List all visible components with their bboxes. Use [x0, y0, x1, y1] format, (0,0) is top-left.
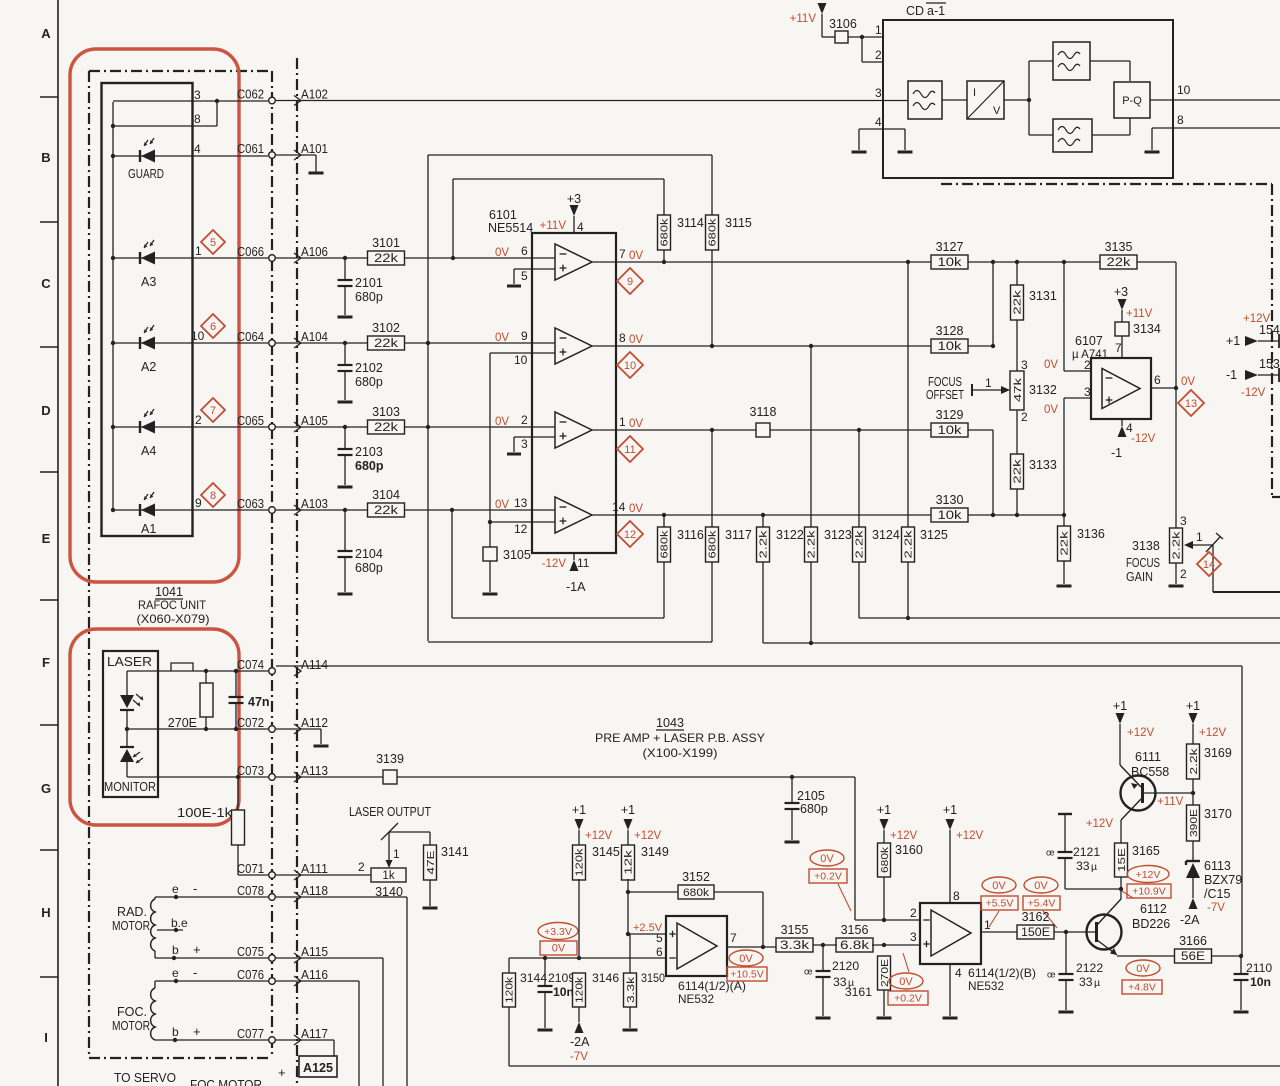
svg-text:+1: +1 — [943, 803, 957, 817]
capacitor 2105 — [785, 775, 828, 840]
svg-text:1: 1 — [195, 244, 202, 258]
svg-text:I: I — [973, 87, 976, 99]
svg-text:OFFSET: OFFSET — [926, 388, 964, 402]
resistor 3156 — [836, 923, 873, 952]
component 3134 — [1115, 322, 1161, 336]
svg-text:3149: 3149 — [641, 845, 669, 859]
wire bottom rail — [509, 1065, 1280, 1067]
svg-text:10k: 10k — [938, 257, 962, 269]
svg-text:D: D — [41, 403, 50, 418]
red leader pin3 — [903, 953, 909, 972]
connector 153 — [1226, 357, 1280, 399]
ground bar 2102 — [338, 401, 353, 404]
connector A117 — [294, 1026, 328, 1045]
potentiometer 3132 FOCUS OFFSET — [1010, 358, 1057, 424]
svg-text:-12V: -12V — [1131, 433, 1156, 445]
svg-text:0V: 0V — [820, 853, 834, 865]
svg-text:4: 4 — [194, 142, 201, 156]
svg-text:A111: A111 — [301, 861, 328, 876]
op-amp 6114B triangle — [923, 910, 971, 956]
svg-text:3166: 3166 — [1179, 934, 1207, 948]
ground bar 2122 — [1059, 1011, 1074, 1014]
svg-text:4: 4 — [577, 220, 584, 234]
wire pin3 to filter — [883, 100, 908, 102]
label 6114(1/2)(B) — [968, 966, 1036, 993]
connector C074 — [237, 657, 275, 674]
svg-text:680k: 680k — [659, 530, 671, 559]
svg-text:C071: C071 — [237, 861, 264, 876]
svg-text:+10.9V: +10.9V — [1132, 886, 1166, 898]
svg-text:3152: 3152 — [682, 870, 710, 884]
wire pin 4 grounds — [859, 129, 905, 150]
I/V converter block — [967, 81, 1004, 119]
supply +1 for 6111 — [1113, 699, 1155, 765]
connector C065 — [237, 413, 275, 430]
svg-text:A113: A113 — [301, 763, 328, 778]
wire 3105 to ground — [489, 561, 491, 592]
ground stub non-inverting input — [514, 437, 532, 452]
svg-text:22k: 22k — [374, 253, 398, 265]
svg-text:A3: A3 — [141, 275, 156, 289]
svg-text:0V: 0V — [629, 503, 643, 515]
svg-text:2: 2 — [195, 413, 202, 427]
diamond 11 — [617, 436, 643, 462]
component 3118 — [750, 405, 777, 437]
diamond 5 — [201, 230, 225, 254]
svg-text:10k: 10k — [938, 510, 962, 522]
supply +1 for 3149 — [621, 803, 662, 845]
connector A118 — [294, 883, 328, 902]
ground bar 2103 — [338, 486, 353, 489]
svg-text:9: 9 — [627, 276, 633, 288]
ground bar 2109 — [538, 1029, 553, 1032]
wire A112 to ground — [276, 729, 321, 744]
decoder board edge dash-dot (top right) — [941, 184, 1280, 497]
ground pin4 a — [852, 151, 867, 154]
supply +3 arrow pin 4 — [540, 192, 584, 234]
monitor photodiode — [120, 747, 143, 763]
photodiode array package box — [102, 83, 193, 536]
sheet border — [57, 0, 59, 1086]
potentiometer 3138 FOCUS GAIN — [1170, 528, 1183, 563]
svg-text:A2: A2 — [141, 360, 156, 374]
capacitor 2104 — [338, 508, 383, 592]
svg-text:C078: C078 — [237, 883, 264, 898]
svg-text:120k: 120k — [504, 976, 516, 1003]
svg-text:(X100-X199): (X100-X199) — [643, 746, 718, 760]
svg-text:I: I — [44, 1030, 48, 1045]
svg-text:œ: œ — [804, 967, 813, 977]
resistor 3123 — [805, 527, 852, 562]
ground bar 2105 — [785, 841, 800, 844]
svg-text:3: 3 — [1084, 385, 1091, 399]
svg-text:3169: 3169 — [1204, 746, 1232, 760]
wire monitor cathode to C073 — [127, 762, 268, 777]
ground stub non-inverting input — [514, 269, 532, 284]
svg-text:LASER: LASER — [107, 655, 152, 669]
svg-text:0V: 0V — [1136, 963, 1150, 975]
svg-text:680p: 680p — [355, 375, 383, 389]
pin 8 wire — [111, 99, 219, 128]
svg-text:A4: A4 — [141, 444, 156, 458]
svg-text:(X060-X079): (X060-X079) — [137, 612, 210, 626]
wire 3166 to A114 — [1211, 954, 1243, 958]
svg-text:0V: 0V — [899, 976, 913, 988]
svg-text:2.2k: 2.2k — [1188, 748, 1200, 775]
svg-text:1: 1 — [393, 847, 400, 861]
svg-text:A115: A115 — [301, 944, 328, 959]
red +3.3V oval — [538, 923, 578, 940]
svg-text:+1: +1 — [572, 803, 586, 817]
svg-text:2: 2 — [1084, 358, 1091, 372]
filter block lower — [1053, 119, 1092, 152]
label 1041 — [155, 585, 183, 599]
connector C064 — [237, 329, 275, 346]
photodiode A3 wire — [111, 244, 268, 260]
svg-text:15E: 15E — [1116, 848, 1128, 872]
svg-text:+12V: +12V — [1136, 869, 1161, 881]
photodiode GUARD — [140, 138, 155, 163]
wire A111 to 3140 — [276, 860, 371, 875]
diamond 12 — [617, 521, 643, 547]
svg-text:680p: 680p — [800, 802, 828, 816]
svg-text:P-Q: P-Q — [1122, 95, 1142, 107]
svg-text:A118: A118 — [301, 883, 328, 898]
svg-text:+10.5V: +10.5V — [730, 969, 764, 981]
svg-text:0V: 0V — [495, 416, 509, 428]
wiper arrow 3132 — [972, 376, 1010, 396]
svg-text:3.3k: 3.3k — [625, 976, 637, 1003]
svg-text:0V: 0V — [1044, 359, 1058, 371]
svg-text:8: 8 — [953, 889, 960, 903]
wire rad motor e to C078 — [155, 881, 268, 899]
connector A112 — [294, 715, 328, 734]
resistor 3101 — [368, 236, 405, 265]
svg-text:3134: 3134 — [1133, 322, 1161, 336]
photodiode A2 wire — [111, 329, 268, 345]
svg-text:154: 154 — [1259, 323, 1280, 337]
resistor 3122 — [757, 527, 804, 562]
svg-text:C073: C073 — [237, 763, 264, 778]
svg-text:6.8k: 6.8k — [840, 940, 869, 952]
red highlight box RAFOC photodiodes — [70, 49, 239, 582]
red +10.9V box — [1127, 884, 1171, 898]
svg-text:GUARD: GUARD — [128, 167, 164, 181]
svg-text:+: + — [193, 942, 201, 957]
connector A105 — [294, 413, 328, 432]
svg-text:A106: A106 — [301, 244, 328, 259]
wire to lower filter — [1029, 134, 1053, 136]
svg-text:3162: 3162 — [1022, 910, 1050, 924]
svg-text:A105: A105 — [301, 413, 328, 428]
svg-text:6: 6 — [656, 945, 663, 959]
wire 3116 top — [662, 513, 666, 527]
svg-text:8: 8 — [619, 331, 626, 345]
ground bar 2120 — [816, 1017, 831, 1020]
svg-text:6: 6 — [210, 321, 216, 333]
wire 6111 base — [1144, 791, 1195, 795]
capacitor 2120 — [804, 945, 859, 1016]
svg-text:3129: 3129 — [936, 408, 964, 422]
svg-text:µ: µ — [1094, 977, 1100, 989]
svg-text:3136: 3136 — [1077, 527, 1105, 541]
wire 3123 top — [809, 344, 813, 527]
svg-text:153: 153 — [1259, 357, 1280, 371]
svg-text:2.2k: 2.2k — [1171, 530, 1183, 559]
svg-text:A125: A125 — [303, 1060, 333, 1075]
svg-text:RAD.: RAD. — [117, 905, 147, 919]
svg-text:+11V: +11V — [790, 13, 817, 25]
svg-text:+3: +3 — [567, 192, 581, 206]
svg-text:2: 2 — [358, 860, 365, 874]
resistor 3129 — [931, 408, 968, 437]
svg-text:33: 33 — [1079, 975, 1093, 989]
wire to C071 — [238, 874, 268, 876]
row tick — [40, 471, 58, 473]
row tick — [40, 849, 58, 851]
svg-text:0V: 0V — [629, 418, 643, 430]
svg-text:C061: C061 — [237, 141, 264, 156]
svg-text:2.2k: 2.2k — [806, 529, 818, 558]
svg-text:6107: 6107 — [1075, 334, 1103, 348]
svg-text:680k: 680k — [659, 218, 671, 247]
svg-text:1041: 1041 — [155, 585, 183, 599]
svg-text:8: 8 — [194, 112, 201, 126]
svg-text:2104: 2104 — [355, 547, 383, 561]
red leader +10.9 — [1122, 891, 1133, 898]
svg-text:1k: 1k — [382, 870, 394, 882]
svg-text:+5.5V: +5.5V — [986, 898, 1014, 910]
component 3139 — [376, 752, 404, 784]
svg-text:3117: 3117 — [725, 528, 752, 542]
svg-text:22k: 22k — [374, 338, 398, 350]
svg-text:NE532: NE532 — [678, 992, 714, 1006]
svg-text:FOCUS: FOCUS — [928, 375, 962, 389]
svg-text:2.2k: 2.2k — [758, 529, 770, 558]
red 0V oval 6114A out — [729, 950, 763, 966]
svg-text:3122: 3122 — [776, 528, 804, 542]
svg-text:-: - — [193, 965, 197, 980]
svg-text:+1: +1 — [621, 803, 635, 817]
svg-text:C076: C076 — [237, 967, 264, 982]
wire to op-amp pin2 — [1064, 262, 1091, 371]
svg-text:3135: 3135 — [1105, 240, 1133, 254]
connector C062 — [237, 87, 275, 104]
connector C063 — [237, 496, 275, 513]
wire 3115 to row2 — [710, 250, 714, 348]
svg-text:+1: +1 — [1113, 699, 1127, 713]
wire 3125 top — [906, 260, 910, 527]
P-Q block — [1114, 82, 1150, 118]
wire row3 right — [968, 430, 995, 517]
svg-text:+3: +3 — [1114, 285, 1128, 299]
connector A116 — [294, 967, 328, 986]
svg-text:4: 4 — [955, 966, 962, 980]
connector C071 — [237, 861, 275, 878]
svg-text:22k: 22k — [1107, 257, 1131, 269]
red +5.5V box — [981, 896, 1018, 910]
svg-text:C075: C075 — [237, 944, 264, 959]
wire 3131 top — [1016, 262, 1018, 285]
wire 3149 down — [626, 879, 630, 936]
svg-text:0V: 0V — [739, 953, 753, 965]
svg-text:-1A: -1A — [566, 580, 586, 594]
svg-text:0V: 0V — [629, 250, 643, 262]
flex joint symbol — [171, 663, 193, 671]
svg-text:22k: 22k — [1059, 530, 1071, 556]
svg-text:b: b — [172, 943, 179, 957]
svg-text:3132: 3132 — [1029, 383, 1057, 397]
row tick — [40, 346, 58, 348]
svg-text:3114: 3114 — [677, 216, 704, 230]
resistor 3162 — [1017, 910, 1054, 939]
wire 3124 top — [857, 428, 861, 527]
wire row1 right — [968, 260, 1100, 264]
svg-text:2.2k: 2.2k — [854, 529, 866, 558]
svg-text:6112: 6112 — [1140, 902, 1167, 916]
wire filter to I/V — [942, 99, 967, 101]
svg-text:BZX79: BZX79 — [1204, 873, 1242, 887]
capacitor 2101 — [338, 256, 383, 315]
svg-text:+1: +1 — [1226, 334, 1240, 348]
svg-text:C074: C074 — [237, 657, 264, 672]
svg-text:2: 2 — [1180, 567, 1187, 581]
svg-text:3: 3 — [1021, 358, 1028, 372]
wire row2 right — [968, 344, 995, 348]
resistor 3155 — [776, 923, 813, 952]
svg-text:3127: 3127 — [936, 240, 964, 254]
svg-text:14: 14 — [612, 500, 626, 514]
svg-text:+: + — [278, 1065, 286, 1080]
svg-text:4: 4 — [875, 115, 882, 129]
foc motor coil — [151, 988, 155, 1040]
svg-text:+0.2V: +0.2V — [894, 993, 922, 1005]
rad motor coil — [151, 899, 155, 951]
svg-text:680k: 680k — [707, 530, 719, 559]
resistor 3130 — [931, 493, 968, 522]
row tick — [40, 599, 58, 601]
wire 3131 to pot — [1016, 320, 1018, 371]
connector 154 — [1226, 313, 1280, 348]
label CD a-1 — [906, 3, 946, 18]
servo board edge dash-dot line — [296, 58, 298, 1086]
wire pot to 3133 — [1016, 410, 1018, 454]
svg-text:0V: 0V — [629, 334, 643, 346]
svg-text:5: 5 — [521, 269, 528, 283]
svg-text:3141: 3141 — [441, 845, 469, 859]
svg-text:A1: A1 — [141, 522, 156, 536]
capacitor 2122 — [1047, 932, 1103, 1010]
wire upper filter to P-Q — [1090, 61, 1130, 81]
svg-text:+1: +1 — [877, 803, 891, 817]
svg-text:3130: 3130 — [936, 493, 964, 507]
svg-text:FOC MOTOR: FOC MOTOR — [190, 1078, 262, 1086]
svg-text:3: 3 — [194, 88, 201, 102]
svg-text:+12V: +12V — [1199, 727, 1227, 739]
svg-text:A103: A103 — [301, 496, 328, 511]
wire pins 10/12 tie — [488, 353, 532, 547]
wire input row 4 — [276, 509, 532, 511]
svg-text:3118: 3118 — [750, 405, 777, 419]
connector A113 — [294, 763, 328, 782]
supply -2A arrow — [570, 1022, 590, 1063]
feedback rail 3115 — [428, 155, 712, 215]
svg-text:10n: 10n — [1250, 975, 1271, 989]
red +10.5V box — [727, 967, 767, 981]
svg-text:-1: -1 — [1226, 368, 1237, 382]
svg-text:3128: 3128 — [936, 324, 964, 338]
resistor 100E-1k — [177, 775, 245, 875]
resistor 3104 — [368, 488, 405, 517]
svg-text:6113: 6113 — [1204, 859, 1231, 873]
wire 3138 to ground — [1175, 563, 1177, 584]
svg-text:A104: A104 — [301, 329, 328, 344]
laser diode — [120, 694, 143, 710]
svg-text:0V: 0V — [495, 499, 509, 511]
svg-text:9: 9 — [521, 329, 528, 343]
svg-text:12: 12 — [514, 522, 528, 536]
resistor 3152 feedback — [628, 870, 765, 949]
svg-text:10: 10 — [191, 329, 205, 343]
svg-text:120k: 120k — [574, 976, 586, 1003]
resistor 3160 — [877, 803, 923, 922]
svg-text:2121: 2121 — [1073, 845, 1100, 859]
supply +3 for 6107 — [1114, 285, 1153, 322]
svg-text:2: 2 — [1021, 410, 1028, 424]
svg-text:BD226: BD226 — [1132, 917, 1170, 931]
svg-text:3124: 3124 — [872, 528, 900, 542]
wire 3122 top — [761, 513, 765, 527]
capacitor 2121 — [1046, 814, 1121, 889]
connector A114 — [294, 657, 328, 676]
svg-text:56E: 56E — [1181, 951, 1205, 963]
connector C075 — [237, 944, 275, 961]
wire input row 3 — [276, 426, 532, 428]
svg-text:+11V: +11V — [1157, 796, 1184, 808]
feedback wire amp3 — [428, 562, 712, 642]
op-amp 6114A triangle — [669, 923, 717, 969]
svg-text:2110: 2110 — [1246, 961, 1272, 975]
wire A115 down — [276, 958, 383, 1086]
resistor 270E — [168, 669, 213, 731]
resistor 3170 — [1187, 793, 1232, 860]
svg-text:3131: 3131 — [1029, 289, 1057, 303]
svg-text:6: 6 — [1154, 373, 1161, 387]
diamond 14 — [1197, 552, 1221, 576]
photodiode A4 — [140, 409, 155, 434]
svg-text:3170: 3170 — [1204, 807, 1232, 821]
connector C077 — [237, 1026, 275, 1043]
op-amp 6114B box — [920, 903, 981, 964]
svg-text:a-1: a-1 — [927, 4, 945, 18]
svg-text:14: 14 — [1203, 559, 1215, 571]
wire output row 1 — [616, 261, 931, 263]
connector A101 — [294, 141, 328, 160]
wire input row 2 — [276, 342, 532, 344]
svg-text:+12V: +12V — [585, 830, 613, 842]
svg-text:22k: 22k — [374, 422, 398, 434]
wire output row 2 — [616, 345, 931, 347]
svg-text:A116: A116 — [301, 967, 328, 982]
ground bar — [507, 453, 521, 456]
svg-text:B: B — [41, 150, 50, 165]
svg-text:3: 3 — [1180, 514, 1187, 528]
svg-text:FOC.: FOC. — [117, 1005, 147, 1019]
svg-text:3160: 3160 — [895, 843, 923, 857]
svg-text:FOCUS: FOCUS — [1126, 556, 1160, 570]
svg-text:6101: 6101 — [489, 208, 517, 222]
bus wire to radial amp 2 — [859, 562, 1280, 620]
